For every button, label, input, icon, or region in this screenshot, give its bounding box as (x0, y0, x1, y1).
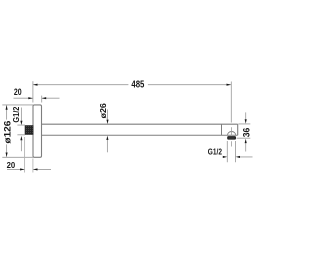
dim 485 line (33, 84, 231, 86)
outlet dome arc (228, 132, 236, 136)
dim 485 extension line right (230, 82, 232, 123)
flange (wall plate, side view) (33, 105, 42, 157)
svg-text:20: 20 (14, 87, 22, 97)
dim 36 line (245, 112, 247, 119)
svg-text:20: 20 (7, 161, 16, 170)
wall-side thread G1/2 (knurled block) (25, 126, 33, 135)
end-piece divider (221, 124, 223, 135)
dim 20 bottom line (7, 168, 51, 170)
svg-text:ø126: ø126 (3, 121, 14, 144)
dim 36 extension lines (237, 124, 251, 138)
dim 485 extension line left (wall plane) (32, 81, 34, 102)
svg-text:ø26: ø26 (98, 103, 108, 119)
dim ø126 line (6, 105, 8, 156)
svg-text:485: 485 (131, 80, 144, 91)
dim 20 bottom: thread length extension lines (25, 137, 33, 173)
dim 20 top: flange depth (41, 96, 43, 103)
G1/2 wall thread extension ticks (17, 125, 25, 135)
svg-text:G1/2: G1/2 (11, 106, 21, 122)
shower arm tube (42, 124, 238, 135)
svg-text:36: 36 (242, 128, 252, 138)
G1/2 outlet dim line (223, 156, 253, 158)
outlet thread G1/2 (dark nipple) (227, 136, 236, 140)
G1/2 wall leader arrows (20, 108, 22, 122)
G1/2 outlet dim extension lines (227, 141, 235, 162)
dim ø126 extension lines (2, 105, 33, 157)
outlet centerline (231, 127, 233, 146)
svg-text:G1/2: G1/2 (208, 146, 222, 156)
